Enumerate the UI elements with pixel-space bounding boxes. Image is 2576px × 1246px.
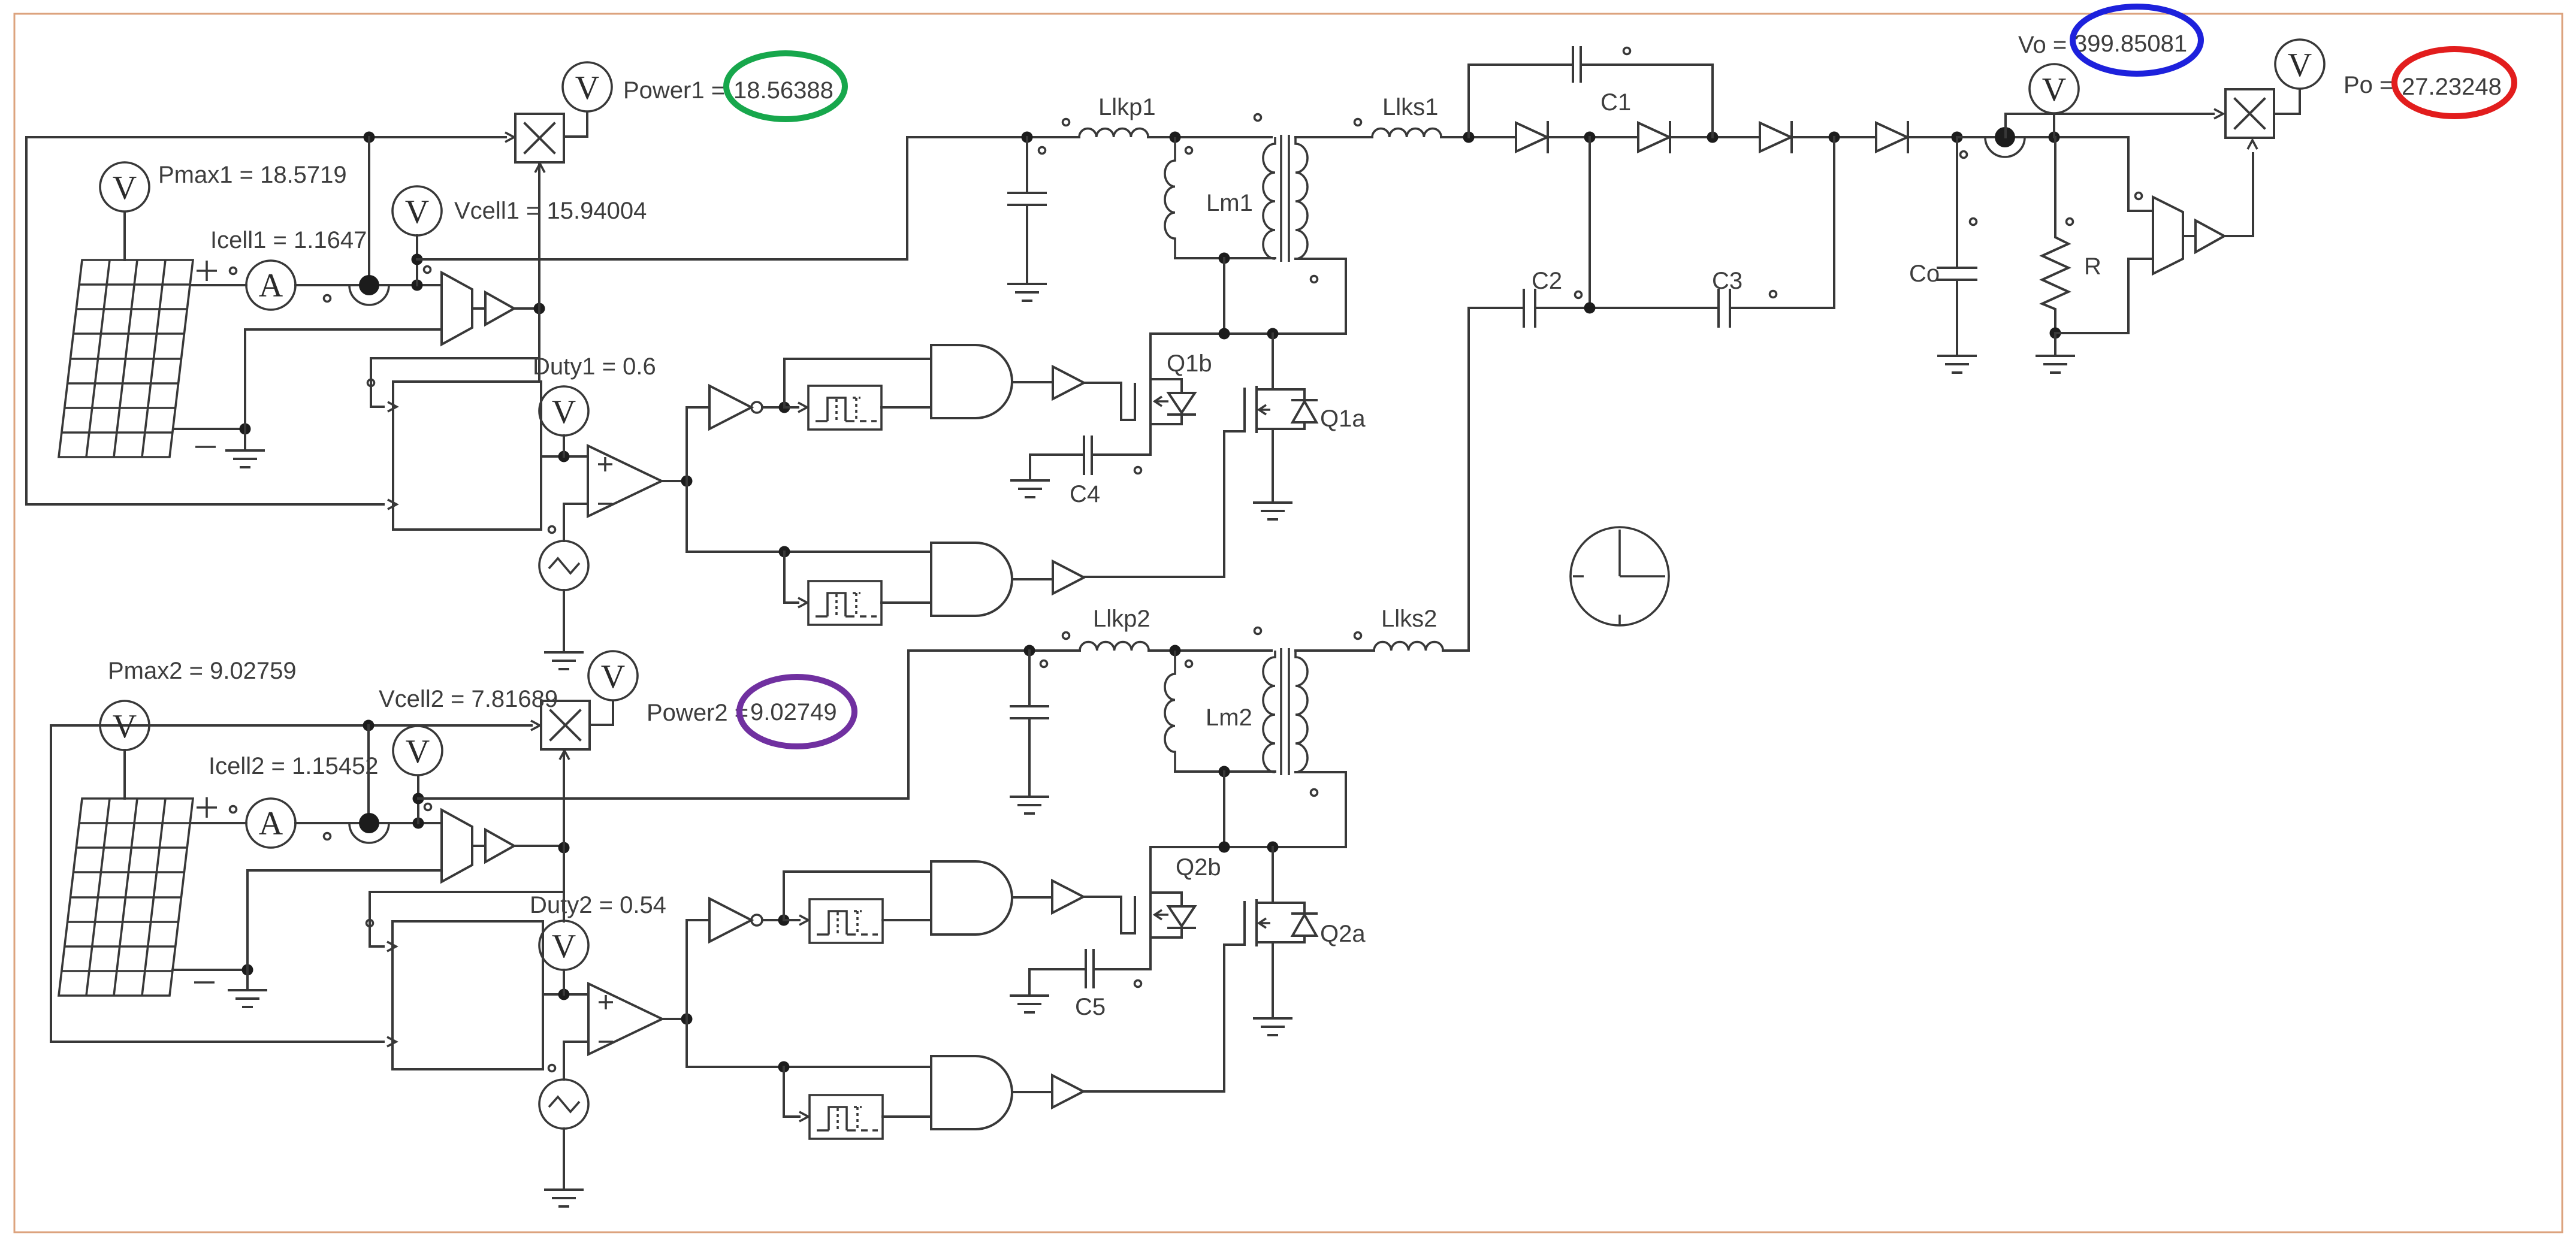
wire buffer output to node — [514, 307, 539, 310]
transformer T2 core — [1281, 648, 1289, 775]
arrow into M1 bottom — [535, 164, 545, 173]
wire PV1 plus to ammeter — [190, 284, 246, 286]
ground C4 — [1011, 480, 1049, 497]
svg-text:Llks2: Llks2 — [1381, 606, 1437, 632]
node junction Co tap — [1952, 132, 1963, 143]
node junction R bottom — [2050, 328, 2061, 339]
ground carrier 1 — [545, 652, 582, 669]
inverter U8 — [709, 899, 762, 942]
svg-text:Q2b: Q2b — [1176, 854, 1221, 881]
wire rail corner to divider — [2128, 137, 2153, 333]
wire R bottom to divider lower tap — [2055, 332, 2128, 334]
node junction input cap 2 — [1024, 645, 1035, 657]
svg-text:27.23248: 27.23248 — [2402, 74, 2502, 100]
AND gate U4 — [931, 345, 1012, 418]
wire comparator output — [662, 480, 687, 482]
node marker — [2136, 193, 2142, 199]
capacitor C4 — [1030, 437, 1150, 480]
driver buffer 1b — [1053, 561, 1084, 594]
MOSFET Q2a — [1224, 847, 1316, 1016]
node marker — [324, 833, 331, 840]
ground C5 — [1011, 996, 1048, 1012]
wire C1 right leg — [1711, 65, 1714, 137]
wire D3 to D4 — [1792, 136, 1876, 138]
svg-text:Duty2 = 0.54: Duty2 = 0.54 — [530, 892, 666, 918]
svg-text:Vcell1 = 15.94004: Vcell1 = 15.94004 — [454, 198, 647, 224]
comparator U2 — [588, 446, 662, 516]
svg-text:Q1a: Q1a — [1320, 406, 1366, 432]
wire MPPT1 output — [541, 455, 588, 458]
node junction — [1584, 303, 1596, 314]
monostable MONO1a — [808, 386, 881, 430]
node junction — [534, 303, 545, 314]
minus terminal PV1 — [195, 446, 216, 448]
ammeter Icell2 — [246, 799, 295, 848]
node junction — [558, 451, 570, 462]
wire mono1a out to AND1a — [881, 406, 931, 409]
transformer T2 primary winding — [1263, 651, 1275, 772]
wire D2 to D3 — [1670, 136, 1760, 138]
wire driver1b to Q1a gate — [1084, 431, 1224, 577]
svg-text:Q1b: Q1b — [1167, 350, 1212, 377]
current probe output node — [1985, 127, 2025, 157]
ellipse red Po — [2394, 49, 2514, 116]
wire Llks1 to diode chain — [1441, 136, 1516, 138]
svg-text:399.85081: 399.85081 — [2074, 31, 2187, 57]
wire M1 output to voltmeter — [564, 112, 587, 137]
node marker — [1255, 628, 1261, 634]
arrow into MPPT1 upper input — [388, 402, 397, 412]
node junction — [1219, 253, 1230, 264]
AND gate U9 — [931, 861, 1012, 934]
node marker — [367, 920, 373, 927]
node junction — [558, 989, 570, 1000]
arrow into MPPT1 lower input — [388, 500, 397, 509]
ammeter Icell1 — [246, 261, 295, 310]
wire jog to MPPT2 upper input — [370, 892, 564, 946]
inductor Lm2 — [1165, 651, 1175, 772]
buffer U12 — [2196, 220, 2224, 252]
svg-text:Power2 =: Power2 = — [647, 700, 748, 726]
node marker — [230, 806, 237, 813]
node junction — [412, 254, 423, 265]
node junction — [778, 915, 790, 926]
voltmeter Vo — [2030, 64, 2079, 113]
monostable MONO2b — [810, 1095, 883, 1139]
wire top rail channel 2 — [51, 725, 531, 1042]
node junction input cap 1 — [1022, 132, 1033, 143]
svg-text:Vcell2 = 7.81689: Vcell2 = 7.81689 — [379, 686, 558, 712]
carrier source VTRI2 — [539, 1079, 588, 1129]
node marker — [2067, 219, 2073, 225]
wire Lm2 bus to switch bus — [1223, 772, 1225, 847]
ground Cin2 — [1011, 797, 1048, 813]
node marker — [1311, 276, 1318, 283]
switch bus 2 — [1151, 846, 1346, 848]
wire Lm1 bottom bus — [1175, 257, 1275, 259]
node marker small — [1135, 981, 1141, 987]
capacitor Cin1 — [1008, 137, 1046, 284]
node marker — [1961, 152, 1967, 158]
svg-text:Vo =: Vo = — [2018, 32, 2067, 58]
node junction top rail 2 — [363, 720, 375, 731]
minus terminal PV2 — [194, 981, 215, 984]
wire MPPT2 output — [543, 993, 588, 996]
node junction — [1463, 132, 1475, 143]
node marker small — [1135, 467, 1141, 474]
solar panel PV1 — [59, 260, 193, 457]
node marker — [1186, 661, 1192, 667]
svg-text:C2: C2 — [1532, 268, 1562, 294]
wire drop to monostable 2b — [784, 1067, 799, 1117]
svg-text:Lm1: Lm1 — [1206, 190, 1253, 216]
node junction — [779, 546, 790, 558]
capacitor C5 — [1029, 950, 1150, 994]
wire to inverter 2 — [687, 919, 709, 921]
diode D1 — [1516, 122, 1548, 152]
node marker — [1311, 790, 1318, 796]
divider U1 with buffer — [442, 273, 514, 344]
voltmeter Duty1 — [539, 386, 588, 436]
wire driver1a to Q1b gate — [1084, 383, 1121, 420]
node junction Vo meter — [2049, 132, 2060, 143]
svg-text:C1: C1 — [1600, 89, 1631, 116]
wire Lm2 bottom bus — [1175, 770, 1275, 773]
wire Vcell1 to converter 1 input — [417, 137, 907, 259]
node junction — [413, 793, 424, 805]
node marker — [1255, 114, 1261, 121]
wire mono2b out to AND2b — [883, 1115, 931, 1118]
wire Pmax1 stem — [123, 212, 126, 260]
arrow into MPPT2 lower input — [387, 1037, 396, 1047]
wire Vo voltmeter stem — [2053, 114, 2055, 137]
wire T2 secondary top to Llks2 — [1295, 649, 1374, 652]
wire buffer to Mo bottom — [2224, 153, 2253, 236]
node junction — [1219, 328, 1230, 340]
transformer T2 secondary winding — [1295, 651, 1307, 772]
svg-text:Pmax2 = 9.02759: Pmax2 = 9.02759 — [108, 658, 297, 684]
inverter U3 — [709, 386, 762, 429]
svg-text:C5: C5 — [1075, 994, 1106, 1020]
node Vcell2 — [413, 818, 424, 829]
svg-text:Co: Co — [1909, 261, 1940, 287]
wire bypass to AND1a upper input — [784, 359, 931, 407]
node marker — [549, 527, 555, 533]
wire M2 output to voltmeter — [590, 701, 613, 725]
node junction — [1267, 842, 1279, 853]
node junction C3 right leg — [1829, 132, 1840, 143]
wire to buffer — [2183, 235, 2196, 237]
node Vcell1 — [412, 280, 423, 291]
inductor Llkp1 — [1079, 129, 1148, 137]
AND gate U10 — [931, 1056, 1012, 1129]
svg-text:C3: C3 — [1712, 268, 1743, 294]
voltmeter Pmax1 — [100, 162, 149, 211]
wire lower chain row 2 — [687, 1066, 931, 1068]
ellipse green Power1 — [726, 53, 845, 119]
MPPT block P&amp;O 2 — [392, 921, 543, 1069]
voltmeter Vcell1 — [392, 186, 442, 235]
wire multiplier2 feed vertical — [563, 749, 565, 921]
svg-text:Q2a: Q2a — [1320, 921, 1366, 947]
svg-text:Po =: Po = — [2344, 72, 2393, 98]
node junction Lm1 tap — [1170, 132, 1181, 143]
svg-text:Power1 =: Power1 = — [623, 77, 725, 104]
node marker — [1039, 147, 1046, 154]
svg-text:Icell2 = 1.15452: Icell2 = 1.15452 — [209, 753, 379, 779]
wire bubble to node — [762, 919, 784, 921]
wire carrier to ground — [563, 590, 565, 652]
wire probe to multiplier upper input — [2006, 114, 2213, 137]
node junction — [558, 842, 570, 854]
wire Co leg — [1956, 137, 1958, 356]
ground Q1a source — [1254, 503, 1291, 519]
current probe node — [349, 275, 389, 305]
wire top-left feedback rail — [26, 137, 506, 504]
wire comparator2 output — [662, 1018, 687, 1020]
node junction — [242, 964, 253, 976]
wire Vcell1 stem — [416, 235, 418, 285]
wire Lm1 bus to switch bus — [1223, 258, 1225, 334]
capacitor Cin2 — [1011, 651, 1048, 797]
svg-text:Llks1: Llks1 — [1382, 94, 1438, 120]
multiplier Mo — [2225, 89, 2274, 138]
node marker — [230, 268, 237, 274]
wire bubble to node — [762, 406, 784, 409]
wire rectifier mid tap down to C2 — [1589, 137, 1591, 308]
svg-text:18.56388: 18.56388 — [733, 77, 833, 104]
node marker — [1575, 292, 1582, 298]
svg-text:Icell1 = 1.1647: Icell1 = 1.1647 — [210, 227, 367, 253]
wire bypass to AND2a upper input — [784, 872, 931, 920]
arrow into Mo left — [2214, 109, 2223, 119]
node junction — [1267, 328, 1279, 340]
wire driver2a to Q2b gate — [1082, 897, 1121, 933]
wire current-node to top rail — [368, 137, 370, 274]
svg-text:C4: C4 — [1070, 481, 1100, 507]
wire multiplier feed vertical — [538, 162, 540, 382]
carrier source VTRI1 — [539, 541, 588, 590]
wire Llks2 right end up to C2 — [1443, 649, 1469, 652]
node marker — [1355, 633, 1361, 639]
clock symbol — [1571, 527, 1669, 625]
switch bus 1 — [1151, 332, 1346, 335]
diode D2 — [1638, 122, 1670, 152]
diode D4 — [1876, 122, 1908, 152]
arrow into M1 left — [505, 132, 514, 142]
wire AND2a out to driver — [1013, 896, 1052, 899]
wire Duty1 voltmeter stem — [563, 436, 565, 456]
monostable MONO1b — [808, 581, 881, 625]
MOSFET Q1b — [1121, 334, 1195, 455]
multiplier M2 — [541, 701, 590, 749]
monostable MONO2a — [810, 899, 883, 943]
diode D3 — [1760, 122, 1792, 152]
wire Duty2 voltmeter stem — [563, 970, 565, 994]
node marker — [1770, 291, 1777, 298]
wire drop to monostable 1b — [784, 552, 798, 603]
ground PV2 — [246, 970, 249, 990]
wire T1 secondary bottom — [1295, 259, 1346, 334]
wire C2 left leg down to Llks2 — [1443, 308, 1469, 651]
capacitor Co — [1938, 268, 1976, 280]
wire Pmax2 stem — [123, 750, 126, 799]
ground R — [2054, 333, 2056, 356]
wire ground node to divider lower input 2 — [247, 870, 442, 970]
multiplier M1 — [515, 114, 564, 162]
wire lower chain row 1 — [687, 551, 931, 553]
wire to inverter 1 — [687, 406, 709, 409]
wire T2 secondary bottom — [1295, 772, 1346, 847]
node marker — [1186, 147, 1192, 154]
ground Cin1 — [1008, 284, 1046, 301]
wire output rail — [1957, 136, 2128, 138]
AND gate U5 — [931, 543, 1012, 616]
inductor Llks2 — [1374, 642, 1443, 651]
wire AND1b out to driver — [1013, 578, 1053, 580]
node marker — [1041, 661, 1047, 667]
wire carrier2 to ground — [563, 1129, 565, 1190]
node junction — [1219, 766, 1230, 778]
wire C3 right leg — [1833, 137, 1835, 308]
wire D4 to output node — [1908, 136, 1957, 138]
transformer T1 core — [1281, 135, 1289, 262]
arrow into M2 left — [531, 721, 540, 730]
converter1 input rail — [907, 136, 1272, 138]
ground carrier 2 — [545, 1190, 582, 1206]
wire comparator2 minus input — [564, 1042, 588, 1079]
wire comparator minus input — [564, 504, 588, 541]
C2 C3 bus — [1469, 307, 1834, 309]
node marker — [1063, 633, 1070, 639]
wire C1 left leg — [1469, 65, 1573, 137]
wire buffer output to node — [514, 845, 564, 847]
node marker — [549, 1065, 555, 1072]
wire PV2 minus to ground node — [173, 969, 247, 971]
plus terminal PV1 — [197, 261, 217, 281]
voltmeter Power2 — [588, 651, 638, 700]
ellipse purple Power2 — [739, 677, 854, 746]
svg-text:Llkp2: Llkp2 — [1093, 606, 1150, 632]
wire PV1 minus to ground node — [173, 428, 245, 430]
wire ground node to divider lower input — [245, 329, 442, 429]
ground PV1 — [244, 429, 246, 450]
ground Q2a source — [1254, 1018, 1291, 1035]
ellipse blue Vo — [2073, 7, 2201, 74]
svg-text:Llkp1: Llkp1 — [1098, 94, 1156, 120]
node marker — [1970, 219, 1977, 225]
node junction — [1584, 132, 1596, 143]
node junction — [681, 1014, 693, 1025]
node marker — [324, 295, 331, 302]
svg-text:R: R — [2084, 253, 2101, 280]
node junction C1 right leg — [1707, 132, 1719, 143]
driver buffer 2a — [1052, 881, 1083, 913]
wire jog to MPPT upper input — [371, 358, 539, 407]
voltmeter Pmax2 — [100, 701, 149, 750]
node junction Lm2 tap — [1170, 645, 1181, 657]
divider U6 with buffer — [442, 810, 514, 882]
inductor Llkp2 — [1080, 642, 1149, 651]
capacitor C2 — [1524, 290, 1535, 326]
wire Vcell2 to converter 2 input — [418, 651, 908, 799]
converter2 input rail — [908, 649, 1272, 652]
capacitor C3 — [1719, 290, 1730, 326]
arrow into monostable 1a — [784, 406, 798, 409]
node marker — [1355, 119, 1361, 126]
inductor Lm1 — [1165, 137, 1175, 258]
wire mono2a out to AND2a — [883, 919, 931, 921]
plus terminal PV2 — [197, 797, 217, 818]
voltmeter Duty2 — [539, 921, 588, 970]
current probe node 2 — [349, 813, 389, 843]
node marker — [1624, 48, 1630, 55]
wire AND1a out to driver — [1013, 381, 1053, 383]
wire AND2b out to driver — [1013, 1091, 1052, 1093]
svg-text:Pmax1 = 18.5719: Pmax1 = 18.5719 — [158, 162, 347, 188]
wire branch vertical gate chain 2 — [685, 920, 688, 1067]
svg-text:Duty1 = 0.6: Duty1 = 0.6 — [533, 353, 656, 380]
wire Vcell2 stem — [417, 776, 419, 823]
wire ammeter2 to divider input — [295, 822, 442, 824]
wire D1 to D2 — [1548, 136, 1638, 138]
voltmeter Vcell2 — [393, 726, 442, 775]
wire mono1b out to AND1b — [881, 601, 931, 604]
arrow into monostable 2a — [784, 919, 799, 921]
node junction — [681, 476, 693, 487]
node marker — [425, 804, 431, 810]
voltmeter Power1 — [563, 62, 612, 111]
node junction — [1219, 842, 1230, 853]
MPPT block P&amp;O 1 — [393, 382, 541, 530]
comparator U7 — [588, 984, 662, 1054]
node marker — [424, 267, 431, 273]
ground Co — [1938, 356, 1976, 373]
transformer T1 secondary winding — [1295, 137, 1307, 259]
node marker — [1063, 119, 1070, 126]
wire branch vertical gate chain 1 — [685, 407, 688, 552]
svg-text:Lm2: Lm2 — [1206, 704, 1252, 731]
arrow into MPPT2 upper input — [387, 942, 396, 951]
transformer T1 primary winding — [1263, 137, 1275, 259]
MOSFET Q1a — [1224, 334, 1316, 503]
resistor R — [2042, 137, 2068, 333]
driver buffer 1a — [1053, 367, 1084, 399]
wire Mo output to Po voltmeter — [2274, 89, 2300, 114]
svg-text:9.02749: 9.02749 — [750, 699, 837, 725]
arrow into Mo bottom — [2248, 140, 2257, 149]
voltmeter Po — [2275, 40, 2324, 89]
MOSFET Q2b — [1121, 847, 1195, 968]
wire driver2b to Q2a gate — [1082, 945, 1224, 1091]
wire T1 secondary top to Llks1 — [1295, 136, 1372, 138]
wire ammeter to divider input — [295, 284, 442, 286]
node marker — [368, 380, 375, 386]
arrow into M2 bottom — [560, 751, 569, 760]
solar panel PV2 — [59, 799, 193, 996]
driver buffer 2b — [1052, 1075, 1083, 1108]
wire PV2 plus to ammeter — [190, 822, 246, 824]
wire current-node to rail 2 — [367, 725, 370, 812]
node junction top rail — [364, 132, 375, 143]
inductor Llks1 — [1372, 129, 1441, 137]
capacitor C1 — [1573, 47, 1713, 81]
node junction — [778, 1061, 790, 1073]
divider U11 output sense — [2153, 197, 2183, 274]
node junction — [779, 402, 790, 413]
node junction — [240, 424, 251, 435]
